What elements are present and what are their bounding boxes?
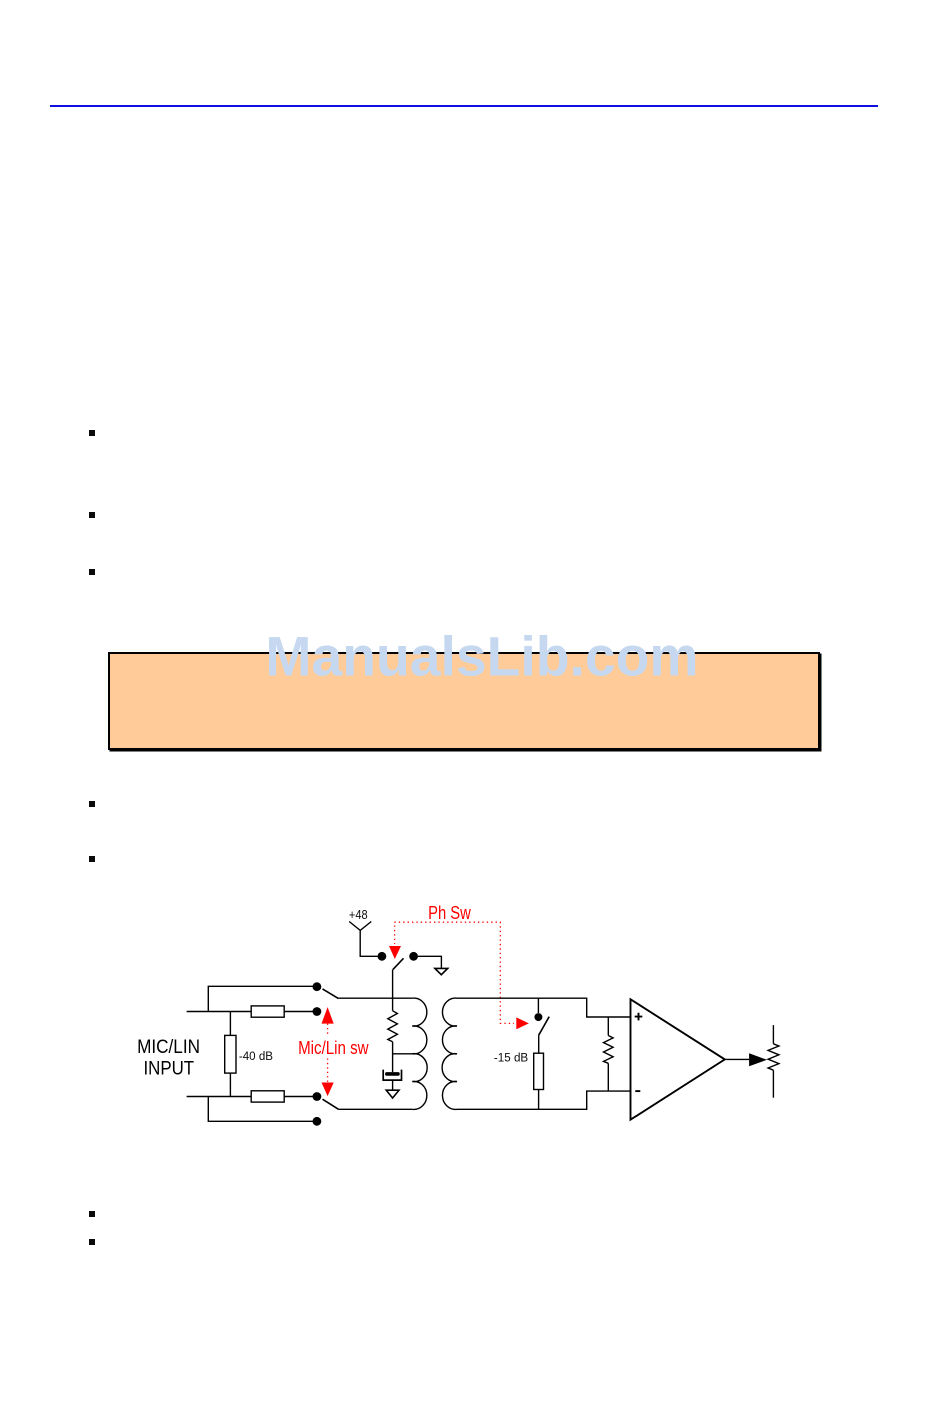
arrow Ph Sw pointer right (516, 1017, 529, 1029)
wire: R1 to switch contact (284, 1011, 317, 1013)
node: pad switch contact (534, 1013, 542, 1021)
switch SW1a blade top (323, 989, 339, 999)
wire: pad top lead (229, 1012, 231, 1036)
arrow wiper into fader (749, 1053, 767, 1066)
wire: shunt bottom lead (607, 1063, 609, 1091)
resistor R4 phantom feed (388, 1011, 398, 1042)
wire: C1 to ground (392, 1080, 394, 1090)
resistor R3 mic cold series (251, 1091, 284, 1102)
dotted leader Mic/Lin lower (327, 1059, 329, 1083)
potentiometer VR1 fader top lead (772, 1025, 774, 1044)
potentiometer VR1 fader element (768, 1044, 779, 1070)
pin + of U1 (635, 1013, 643, 1021)
wire: blade to R5 (538, 1035, 540, 1053)
wire: R5 to bottom line (538, 1090, 540, 1110)
op-amp U1 (631, 999, 725, 1119)
arrow Mic/Lin down (322, 1083, 334, 1097)
node: phantom switch contact left (378, 952, 387, 961)
node: phantom switch contact right (409, 952, 418, 961)
bullet 1 (89, 430, 95, 436)
power symbol +48V fork (349, 922, 377, 957)
arrow Ph Sw pointer down (389, 946, 401, 959)
wire: R3 to switch contact (284, 1096, 317, 1098)
dotted leader Ph Sw (394, 922, 514, 1023)
node: switch contact bottom mic (313, 1092, 322, 1101)
resistor R5 -15dB pad (534, 1053, 544, 1089)
capacitor C1 cup (383, 1070, 401, 1081)
svg-text:Ph Sw: Ph Sw (428, 902, 471, 923)
resistor R2 -40dB shunt (225, 1035, 236, 1073)
wire: mic hot input stub (187, 1011, 252, 1013)
svg-text:INPUT: INPUT (144, 1059, 195, 1080)
svg-text:-15 dB: -15 dB (494, 1053, 529, 1065)
dotted leader Ph Sw to arrow (394, 926, 396, 945)
wire: R4 to centre tap and C1 (392, 1042, 394, 1072)
note box (108, 652, 820, 750)
wire: phantom contact to ground (418, 956, 441, 968)
wire: pad switch stub (537, 998, 539, 1013)
wire: pad bottom lead (229, 1073, 231, 1096)
bullet 2 (89, 512, 95, 518)
switch SW2 phantom blade (393, 958, 404, 969)
bullet 5 (89, 856, 95, 862)
wire: line cold branch (208, 1097, 317, 1122)
dotted leader Mic/Lin upper (327, 1024, 329, 1036)
ground C1 (386, 1090, 399, 1098)
wire: primary bottom lead (339, 1108, 413, 1110)
svg-text:-40 dB: -40 dB (239, 1051, 273, 1063)
node: switch contact bottom line (313, 1117, 322, 1126)
switch SW3 -15dB pad blade (539, 1017, 550, 1036)
wire: U1 output (725, 1058, 749, 1060)
resistor R1 mic hot series (251, 1006, 284, 1017)
wire: shunt top lead (607, 1017, 609, 1036)
pin - of U1 (635, 1090, 640, 1092)
node: switch contact top mic (313, 1007, 322, 1016)
header rule (50, 105, 878, 107)
wire: secondary bottom line (457, 1091, 631, 1109)
svg-text:+48: +48 (349, 907, 368, 922)
transformer T1 primary winding (412, 998, 427, 1109)
wire: phantom feed down (392, 969, 394, 1010)
wire: primary top lead (339, 997, 413, 999)
bullet 3 (89, 569, 95, 575)
transformer T1 secondary winding (442, 998, 457, 1109)
node: switch contact top line (313, 982, 322, 991)
wire: line hot branch (208, 986, 317, 1011)
svg-text:Mic/Lin sw: Mic/Lin sw (298, 1038, 369, 1058)
svg-text:MIC/LIN: MIC/LIN (137, 1037, 200, 1058)
wire: primary centre tap (393, 1053, 414, 1055)
bullet 4 (89, 801, 95, 807)
ground phantom off position (435, 968, 448, 974)
resistor R6 input shunt (604, 1036, 614, 1064)
wire: mic cold input stub (187, 1096, 252, 1098)
wire: secondary top line (457, 998, 631, 1017)
potentiometer VR1 fader bottom lead (772, 1070, 774, 1098)
label MIC/LIN INPUT (137, 1037, 200, 1080)
bullet 6 (89, 1211, 95, 1217)
svg-text:ManualsLib.com: ManualsLib.com (265, 625, 698, 687)
bullet 7 (89, 1239, 95, 1245)
switch SW1b blade bottom (323, 1099, 339, 1109)
capacitor C1 plate (385, 1072, 400, 1076)
arrow Mic/Lin up (322, 1007, 334, 1024)
